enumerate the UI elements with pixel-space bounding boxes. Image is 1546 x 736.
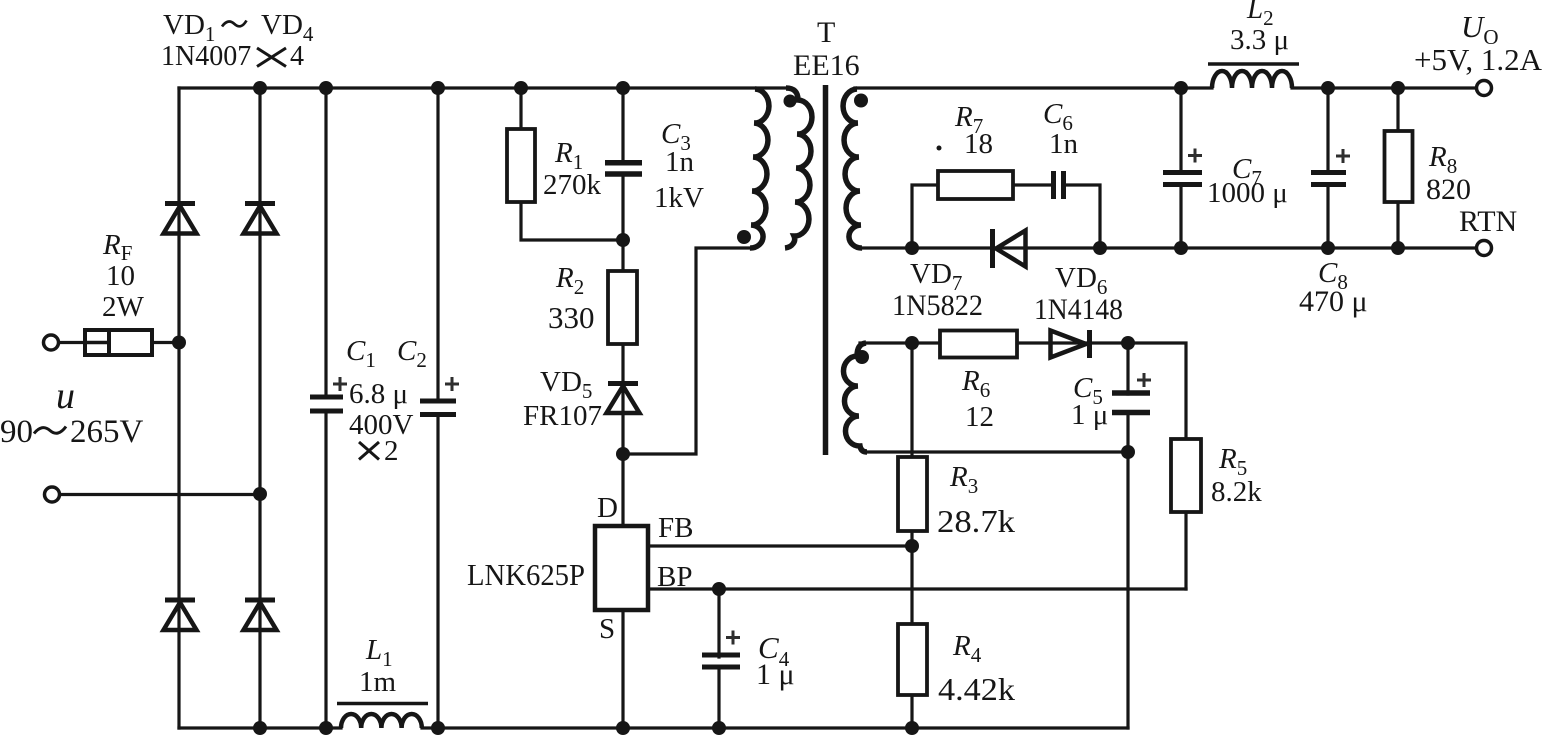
svg-text:12: 12 [965, 401, 994, 433]
svg-text:LNK625P: LNK625P [467, 557, 585, 592]
svg-text:2W: 2W [102, 291, 145, 323]
svg-text:1N4007: 1N4007 [161, 41, 251, 72]
svg-text:EE16: EE16 [793, 49, 860, 82]
svg-text:1 μ: 1 μ [756, 658, 795, 691]
svg-text:820: 820 [1426, 173, 1471, 206]
svg-text:1N4148: 1N4148 [1034, 293, 1123, 326]
svg-text:28.7k: 28.7k [937, 503, 1015, 539]
svg-text:400V: 400V [349, 409, 414, 441]
svg-text:265V: 265V [70, 414, 144, 450]
svg-text:D: D [597, 492, 618, 524]
svg-text:BP: BP [657, 561, 692, 593]
svg-text:6.8 μ: 6.8 μ [349, 378, 408, 410]
svg-text:270k: 270k [543, 169, 602, 201]
svg-text:T: T [817, 16, 835, 49]
svg-text:1n: 1n [665, 146, 695, 178]
svg-text:FB: FB [658, 512, 693, 544]
svg-text:RTN: RTN [1459, 205, 1517, 238]
svg-text:1kV: 1kV [654, 182, 704, 214]
svg-text:S: S [599, 613, 615, 645]
svg-text:1n: 1n [1049, 128, 1079, 160]
svg-text:8.2k: 8.2k [1211, 476, 1262, 508]
svg-text:90: 90 [0, 414, 33, 450]
svg-text:4: 4 [290, 41, 304, 72]
svg-text:1 μ: 1 μ [1071, 399, 1108, 431]
svg-text:330: 330 [548, 300, 595, 335]
svg-text:1000 μ: 1000 μ [1207, 177, 1288, 209]
svg-text:u: u [56, 375, 75, 417]
svg-text:3.3 μ: 3.3 μ [1230, 24, 1289, 56]
svg-text:2: 2 [384, 435, 399, 467]
svg-text:+5V, 1.2A: +5V, 1.2A [1414, 42, 1543, 77]
svg-text:FR107: FR107 [523, 400, 602, 432]
svg-text:10: 10 [106, 260, 135, 292]
svg-text:1N5822: 1N5822 [892, 289, 983, 322]
svg-text:4.42k: 4.42k [938, 671, 1015, 707]
svg-text:18: 18 [964, 128, 993, 160]
svg-text:1m: 1m [359, 666, 397, 698]
svg-text:470 μ: 470 μ [1299, 285, 1368, 318]
